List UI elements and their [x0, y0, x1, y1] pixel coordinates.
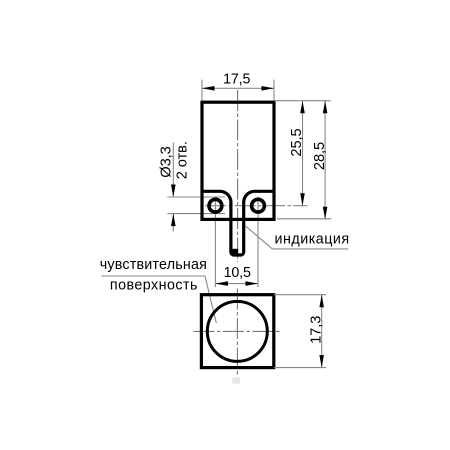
wire centerline horizontal bottom view — [194, 330, 282, 332]
dimension 17,5 line with arrows — [202, 86, 274, 91]
svg-text:17,5: 17,5 — [223, 71, 250, 87]
wire hole vertical centerline left — [214, 197, 216, 288]
sensing face circle — [207, 301, 267, 361]
LED indicator square on stem — [232, 249, 238, 254]
dimension hole diameter line with arrows — [171, 143, 176, 232]
dimension 10,5 line with arrows — [215, 281, 258, 286]
svg-text:индикация: индикация — [275, 232, 350, 248]
wire hole vertical centerline right — [257, 197, 259, 288]
dimension label 10,5 — [224, 265, 251, 281]
svg-text:чувствительная: чувствительная — [100, 257, 207, 273]
connector stem with mounting bracket ears outline — [202, 191, 274, 255]
dimension label 28,5 — [312, 142, 328, 170]
svg-text:28,5: 28,5 — [312, 142, 328, 170]
mounting hole right — [252, 199, 265, 212]
leader line sensitive surface — [102, 276, 217, 323]
dimension label 17,3 — [309, 316, 325, 344]
wire centerline vertical front view — [237, 90, 239, 262]
wire extension lines for 17,3 — [274, 295, 326, 368]
wire tangent extension lines for hole diameter — [167, 197, 225, 214]
wire centerline vertical bottom view — [236, 289, 238, 378]
dimension label 17,5 — [223, 71, 250, 87]
dimension 25,5 line with arrows — [300, 101, 305, 206]
dimension label diameter 3,3 — [158, 146, 174, 177]
svg-text:17,3: 17,3 — [309, 316, 325, 344]
sensor face outline bottom view — [201, 295, 273, 368]
dimension label 2 holes — [175, 141, 191, 179]
dimension 28,5 line with arrows — [323, 101, 328, 220]
sensor body outline front view — [202, 102, 274, 219]
label sensitive surface line 1 — [100, 257, 207, 273]
wire top extension line right side — [274, 100, 331, 102]
label indication — [275, 232, 350, 248]
watermark gray square — [232, 377, 240, 383]
mounting hole left — [209, 199, 222, 212]
svg-text:25,5: 25,5 — [289, 128, 305, 156]
wire hole horizontal centerline — [205, 205, 307, 207]
label sensitive surface line 2 — [110, 278, 198, 294]
svg-text:поверхность: поверхность — [110, 278, 198, 294]
svg-text:Ø3,3: Ø3,3 — [158, 146, 174, 177]
dimension 17,3 line with arrows — [319, 295, 324, 368]
svg-text:2 отв.: 2 отв. — [175, 141, 191, 179]
dimension label 25,5 — [289, 128, 305, 156]
wire extension lines for width dimension — [202, 80, 274, 101]
leader line indication — [246, 226, 349, 249]
wire bottom extension line for 28,5 — [277, 218, 331, 220]
svg-text:10,5: 10,5 — [224, 265, 251, 281]
